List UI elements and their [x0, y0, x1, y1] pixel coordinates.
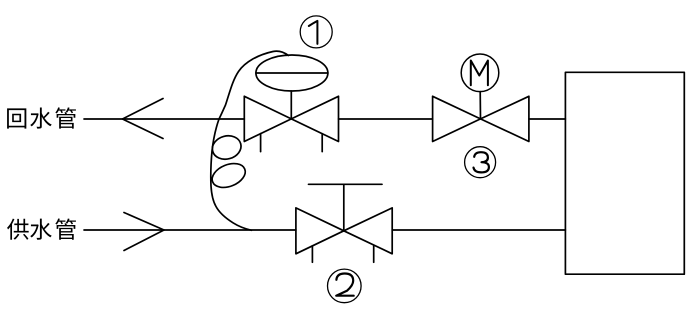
wire: return pipe segment left: [84, 118, 244, 120]
valve V1 actuator stem: [290, 91, 292, 119]
valve V3 body (motorized valve): [433, 96, 529, 141]
valve V1 diaphragm actuator: [256, 55, 328, 91]
balloon label 3 circle: [465, 147, 496, 178]
valve V2 handle bar: [309, 183, 383, 185]
flow arrow (return, pointing left): [123, 99, 164, 139]
digit 2: [336, 274, 354, 296]
balloon label 1 circle: [300, 16, 332, 48]
valve V1 body (self-operated control valve): [244, 96, 338, 141]
wire: return pipe segment middle: [339, 118, 433, 120]
motor actuator circle: [461, 54, 499, 92]
capillary coil loop 2: [209, 159, 249, 192]
flow arrow (supply, pointing right): [124, 213, 164, 251]
wire: supply pipe segment right: [392, 229, 565, 231]
wire: return pipe segment right: [529, 118, 566, 120]
capillary tube: [211, 51, 289, 230]
valve V2 body (manual balancing valve): [296, 208, 392, 254]
valve V2 stem: [343, 184, 345, 231]
letter M: [471, 61, 488, 86]
capillary coil loop 1: [210, 133, 244, 163]
valve V1 bottom leg left: [260, 134, 262, 152]
label 回水管 (return pipe text): [7, 107, 76, 128]
equipment box (load/heat exchanger): [565, 72, 684, 274]
digit 1: [309, 21, 318, 44]
digit 3: [474, 152, 489, 172]
label 供水管 (supply pipe text): [7, 218, 76, 239]
valve V2 bottom leg left: [311, 246, 313, 262]
valve V2 bottom leg right: [373, 246, 375, 262]
valve V3 actuator stem: [479, 92, 481, 119]
wire: supply pipe segment left: [84, 229, 296, 231]
valve V1 bottom leg right: [321, 134, 323, 152]
balloon label 2 circle: [328, 269, 362, 303]
